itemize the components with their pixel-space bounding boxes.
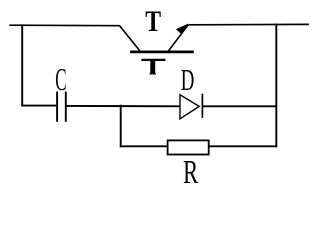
wire top-left segment [9, 24, 120, 27]
transistor T lower electrode bar [141, 59, 165, 61]
svg-text:D: D [181, 62, 195, 97]
wire bottom right of R [209, 145, 278, 147]
wire top-right segment [189, 23, 309, 25]
svg-text:T: T [145, 5, 161, 38]
svg-text:C: C [55, 61, 66, 97]
wire left vertical [21, 24, 23, 106]
wire lower-left vertical [120, 105, 122, 148]
capacitor C right plate [65, 92, 67, 122]
svg-text:R: R [183, 154, 198, 188]
transistor T emitter arrowhead [176, 23, 189, 34]
diode D triangle [180, 95, 199, 119]
resistor R box [168, 140, 209, 154]
wire middle C to D [67, 105, 181, 107]
transistor T lower electrode stem [149, 61, 156, 75]
wire middle D to right vertical [203, 105, 278, 107]
wire bottom left of R [120, 145, 168, 147]
transistor T left lead [120, 26, 140, 51]
transistor T right lead [169, 25, 189, 51]
wire middle left of C [21, 105, 56, 107]
capacitor C left plate [56, 92, 58, 122]
wire right vertical [275, 24, 277, 148]
diode D cathode bar [201, 94, 203, 118]
transistor T base bar [130, 51, 194, 54]
